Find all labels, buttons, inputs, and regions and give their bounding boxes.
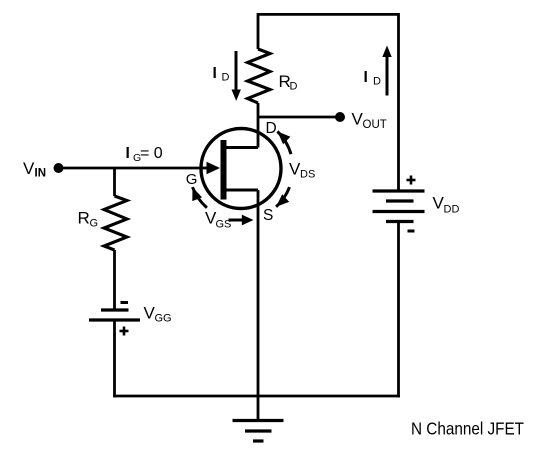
battery VGG minus sign [121, 301, 129, 304]
wire input horizontal VIN to gate [59, 167, 210, 170]
svg-text:G: G [186, 171, 198, 188]
svg-text:I: I [126, 145, 130, 162]
arc VDS lower with arrowhead [276, 187, 289, 207]
svg-text:D: D [290, 81, 298, 93]
battery VGG plus sign [120, 327, 129, 336]
battery VDD [373, 191, 425, 222]
battery VDD minus sign [408, 230, 415, 233]
transistor Q1 drain lead [224, 146, 258, 149]
node VOUT dot [335, 112, 345, 122]
svg-text:G: G [90, 218, 99, 230]
wire drain vertical (RD bottom to JFET drain) [257, 103, 260, 148]
current arrow ID right (up) [382, 46, 391, 96]
wire top rail [258, 14, 399, 191]
svg-text:D: D [266, 120, 277, 137]
wire RG to VGG [113, 250, 116, 309]
svg-text:N Channel JFET: N Channel JFET [411, 419, 524, 439]
transistor Q1 N-channel JFET body circle [201, 129, 281, 209]
transistor Q1 source lead [224, 188, 258, 191]
svg-text:V: V [23, 159, 35, 178]
wire VOUT tap [258, 116, 340, 119]
wire source vertical (JFET source to ground) [257, 190, 260, 421]
resistor RD [248, 49, 271, 103]
svg-text:IN: IN [35, 168, 47, 180]
svg-text:= 0: = 0 [140, 145, 163, 162]
resistor RG [104, 196, 127, 250]
node VIN dot [54, 163, 64, 173]
svg-text:D: D [373, 76, 381, 88]
svg-text:I: I [364, 69, 368, 86]
transistor Q1 gate arrow [207, 162, 221, 174]
transistor Q1 channel bar [221, 140, 227, 200]
wire bottom rail [113, 395, 400, 398]
svg-text:GS: GS [216, 219, 232, 231]
svg-text:R: R [78, 209, 90, 228]
arrow VGS toward S (right) [229, 215, 254, 226]
battery VGG [89, 310, 140, 320]
svg-text:DD: DD [444, 204, 460, 216]
ground [233, 421, 284, 442]
svg-text:GG: GG [155, 313, 172, 325]
arc VDS upper with arrowhead [277, 131, 291, 154]
svg-text:S: S [263, 207, 273, 224]
svg-text:I: I [213, 65, 217, 82]
wire right rail lower [397, 222, 400, 398]
svg-text:DS: DS [300, 169, 315, 181]
wire left rail (VGG to bottom) [113, 320, 116, 397]
svg-text:D: D [222, 72, 230, 84]
arc VGS curved arrow toward G [192, 187, 207, 208]
battery VDD plus sign [407, 176, 416, 185]
wire input branch down to RG [113, 168, 116, 196]
svg-text:OUT: OUT [363, 119, 387, 131]
current arrow ID left (down) [232, 51, 241, 101]
